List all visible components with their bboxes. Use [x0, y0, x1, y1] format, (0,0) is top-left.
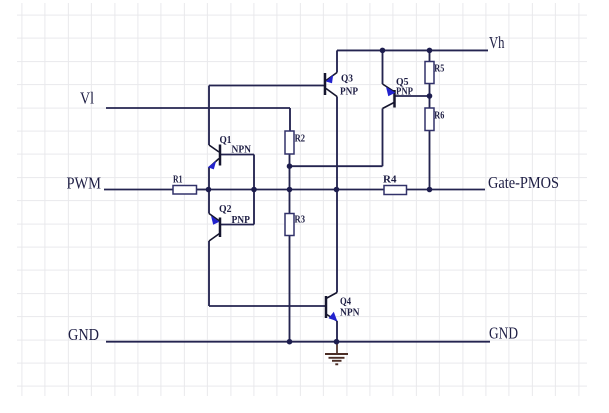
wire R6 bottom lead to gate bus: [429, 131, 431, 190]
node Vh rail / Q5 emitter: [380, 48, 386, 54]
wire Q4 collector up to gate bus: [336, 190, 338, 293]
node bus / R6: [427, 187, 433, 193]
svg-text:Q4: Q4: [340, 296, 351, 307]
resistor R4: [383, 175, 407, 195]
wire Vl horizontal: [106, 107, 290, 109]
wire Q5 collector vertical: [382, 109, 384, 167]
wire Q2 base to base rail: [221, 224, 254, 226]
node bus / Q1-Q2 emitters: [206, 187, 212, 193]
svg-text:Vl: Vl: [80, 88, 94, 107]
wire PWM to R1: [104, 189, 173, 191]
wire Q5 emitter to Vh rail: [382, 50, 384, 84]
transistor Q2: [209, 204, 250, 241]
ground: [325, 342, 348, 364]
node Q5 base / R5 / R6: [427, 93, 433, 99]
wire bus node to node B: [209, 189, 255, 191]
wire R2 bottom through nodes to R3 top: [289, 154, 291, 214]
svg-text:NPN: NPN: [340, 307, 360, 318]
svg-text:R4: R4: [383, 175, 397, 186]
svg-text:NPN: NPN: [232, 144, 252, 155]
wire R6 top lead: [429, 96, 431, 108]
wire R5 bottom lead: [429, 84, 431, 97]
svg-text:PWM: PWM: [67, 173, 102, 192]
wire Q3 emitter to Vh rail: [336, 50, 338, 72]
resistor R2: [285, 131, 305, 154]
svg-text:Gate-PMOS: Gate-PMOS: [488, 173, 559, 192]
transistor Q1: [208, 135, 252, 170]
node Vh rail / R5: [427, 48, 433, 54]
svg-text:Vh: Vh: [489, 33, 505, 52]
wire Q4 emitter down to GND: [336, 321, 338, 342]
svg-text:R2: R2: [295, 134, 306, 145]
transistor Q3: [325, 73, 358, 98]
wire Vl corner down to R2: [289, 108, 291, 131]
svg-text:GND: GND: [489, 324, 518, 343]
transistor Q5: [383, 77, 414, 109]
wire Q1 base to base rail: [221, 154, 254, 156]
svg-text:GND: GND: [68, 325, 99, 344]
wire Q2 emitter up to bus: [208, 190, 210, 214]
wire Q5 base to R5/R6 node: [396, 95, 430, 97]
wire R3 bottom to GND: [289, 236, 291, 342]
svg-text:PNP: PNP: [396, 87, 413, 98]
svg-text:Q1: Q1: [220, 135, 232, 146]
wire Q2 collector to Q4 base: [209, 305, 325, 307]
node GND / R3: [287, 339, 293, 345]
svg-text:R6: R6: [434, 111, 444, 122]
svg-text:R1: R1: [173, 174, 183, 185]
resistor R3: [285, 214, 305, 236]
wire Q3 collector down to gate bus: [336, 97, 338, 190]
svg-text:R5: R5: [434, 64, 444, 75]
wire Q3 base from node A: [209, 85, 324, 87]
wire Q2 collector down: [208, 241, 210, 306]
wire Vh rail: [337, 49, 488, 51]
svg-text:PNP: PNP: [232, 215, 251, 226]
svg-text:PNP: PNP: [340, 86, 358, 97]
svg-text:Q2: Q2: [219, 204, 232, 215]
wire Q1 emitter down to bus: [208, 168, 210, 190]
node R2 / Q5 collector: [287, 163, 293, 169]
resistor R1: [173, 174, 197, 194]
node bus / base rail: [251, 187, 257, 193]
wire R1 to Q1/Q2 emitter node: [197, 189, 209, 191]
node bus / Q3-Q4 collectors: [334, 187, 340, 193]
wire R4 right to Gate-PMOS: [407, 189, 486, 191]
wire GND rail: [106, 341, 490, 343]
wire R5 top lead: [429, 50, 431, 61]
svg-text:R3: R3: [295, 214, 306, 225]
node GND / Q4 emitter: [334, 339, 340, 345]
node bus / R2-R3: [287, 187, 293, 193]
wire R2/R3 node to R4 left: [290, 189, 385, 191]
transistor Q4: [326, 293, 360, 322]
wire R2/Q5 collector link: [290, 165, 383, 167]
svg-text:Q3: Q3: [341, 73, 353, 84]
wire node B to R2/R3 node: [254, 189, 290, 191]
resistor R6: [425, 108, 444, 131]
resistor R5: [425, 62, 444, 84]
wire base rail vertical: [253, 155, 255, 225]
wire node A vertical to Q1 collector: [208, 86, 210, 146]
